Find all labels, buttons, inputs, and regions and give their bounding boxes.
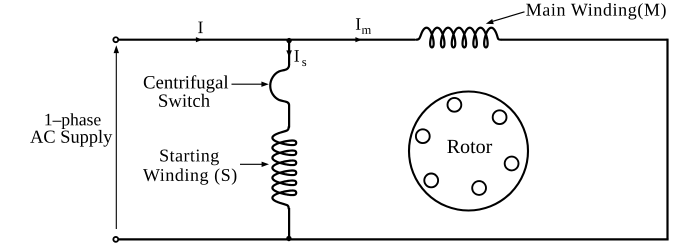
inductor: Starting Winding coil (vertical): [272, 127, 296, 209]
rotor: rotor body (large circle): [409, 92, 528, 211]
rotor bar 3 (small circle): [505, 157, 519, 171]
label: current Is (I with subscript s): [294, 50, 306, 66]
arrow: current I on top wire: [196, 37, 203, 42]
junction: top node of starting-winding branch: [286, 38, 291, 43]
wire: branch from starting winding down to bottom junction: [288, 208, 290, 239]
label: Centrifugal Switch: [144, 75, 228, 107]
wire: branch from top junction down to centrifugal switch: [288, 40, 290, 65]
label: current Im (I with subscript m): [356, 18, 371, 34]
rotor bar 6 (small circle): [416, 129, 430, 143]
arrow: leader from Starting Winding label to coil: [240, 162, 269, 167]
label: Main Winding(M): [526, 3, 666, 19]
rotor bar 1 (small circle): [448, 98, 462, 112]
label: current I: [198, 22, 203, 33]
arrow: supply direction arrow (thin vertical line, arrowhead up): [114, 45, 119, 229]
inductor: Main Winding coil: [416, 28, 501, 48]
switch: centrifugal switch (C-shaped contact): [270, 65, 289, 127]
terminal: bottom-left supply terminal (open circle): [113, 237, 118, 242]
wire: right vertical conductor: [666, 39, 668, 240]
terminal: top-left supply terminal (open circle): [113, 37, 118, 42]
arrow: current Im on top wire: [355, 37, 362, 42]
arrow: leader from Main Winding(M) label to main coil: [486, 12, 525, 24]
arrow: current Is on branch (pointing down): [286, 50, 292, 57]
rotor bar 4 (small circle): [472, 181, 486, 195]
wire: bottom horizontal conductor: [119, 238, 669, 240]
rotor bar 2 (small circle): [493, 110, 507, 124]
wire: top horizontal conductor from main winding to top-right corner: [501, 39, 668, 41]
wire: top horizontal conductor from top-left terminal to main winding: [119, 39, 415, 41]
junction: bottom node where branch meets bottom wire: [286, 236, 291, 241]
label: 1-phase AC Supply: [30, 113, 112, 147]
label: Rotor: [447, 140, 492, 153]
rotor bar 5 (small circle): [424, 174, 438, 188]
label: Starting Winding (S): [143, 150, 236, 185]
arrow: leader from Centrifugal Switch label to switch: [232, 82, 269, 87]
